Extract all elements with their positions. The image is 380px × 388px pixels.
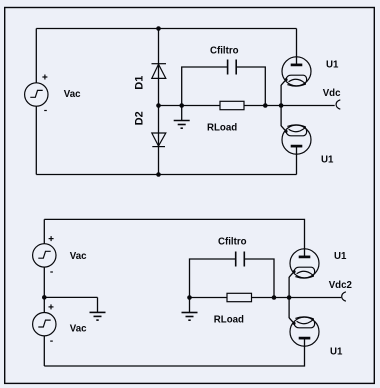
plus sign of bottom lower Vac <box>49 304 54 309</box>
wire: bottom circuit left rail <box>43 219 45 366</box>
ground (bottom circuit, sources midpoint) <box>90 297 106 320</box>
wire: bottom circuit bottom rail <box>44 338 304 366</box>
junction: top cap right <box>263 103 268 108</box>
wire: top circuit top rail <box>36 28 296 30</box>
wire: bottom sources midpoint to ground <box>44 296 97 298</box>
vacuum tube U1 (top circuit, lower) <box>281 125 311 155</box>
wire: top tubes cathode vertical <box>280 85 282 126</box>
svg-text:Vac: Vac <box>70 323 87 334</box>
wire: top output net horizontal <box>159 105 335 107</box>
minus sign of bottom lower Vac <box>50 340 53 342</box>
terminal Vdc2 <box>342 292 346 301</box>
wire: top filter cap right branch <box>237 67 265 106</box>
minus sign of bottom upper Vac <box>50 271 53 273</box>
svg-text:RLoad: RLoad <box>214 315 244 326</box>
svg-text:U1: U1 <box>330 347 343 358</box>
resistor RLoad (bottom circuit) <box>227 293 252 301</box>
junction: bottom sources midpoint <box>42 295 47 300</box>
junction: bottom cap right <box>272 295 277 300</box>
wire: top lower tube plate feed <box>296 146 298 175</box>
svg-text:Cfiltro: Cfiltro <box>218 236 247 247</box>
ground (bottom circuit, filter) <box>182 298 198 321</box>
svg-text:U1: U1 <box>334 251 347 262</box>
junction: bottom rail / diode branch <box>156 172 161 177</box>
terminal Vdc <box>336 100 340 109</box>
svg-text:Vac: Vac <box>70 251 87 262</box>
voltage source Vac (bottom circuit, upper) <box>33 244 56 267</box>
svg-text:D2: D2 <box>134 111 146 125</box>
wire: top circuit bottom rail <box>36 174 296 176</box>
plus sign of bottom upper Vac <box>49 236 54 241</box>
svg-text:Vac: Vac <box>64 89 81 100</box>
junction: top tubes cathode node <box>279 103 284 108</box>
wire: top upper tube plate feed <box>296 29 298 65</box>
junction: bottom filter ground / cap left <box>187 295 192 300</box>
plus sign of top Vac <box>42 75 47 80</box>
capacitor Cfiltro (bottom circuit) <box>236 252 245 267</box>
ground (top circuit) <box>174 106 190 129</box>
wire: diode branch vertical <box>158 29 160 175</box>
svg-text:Vdc2: Vdc2 <box>329 280 352 291</box>
voltage source Vac (bottom circuit, lower) <box>33 313 56 336</box>
resistor RLoad (top circuit) <box>220 101 244 109</box>
vacuum tube U1 (top circuit, upper) <box>281 56 311 86</box>
wire: bottom output net horizontal <box>190 297 342 299</box>
wire: top circuit left rail <box>35 29 37 175</box>
wire: bottom circuit top rail <box>44 219 304 256</box>
svg-text:U1: U1 <box>321 155 334 166</box>
diode D2 <box>152 133 166 147</box>
junction: top rail / diode branch <box>156 26 161 31</box>
junction: D1/D2 midpoint node <box>156 103 161 108</box>
wire: bottom filter cap branch left <box>190 259 236 298</box>
wire: bottom tubes cathode vertical <box>288 277 290 318</box>
vacuum tube U1 (bottom circuit, lower) <box>289 317 319 347</box>
svg-text:Vdc: Vdc <box>323 88 341 99</box>
vacuum tube U1 (bottom circuit, upper) <box>289 248 319 278</box>
svg-text:RLoad: RLoad <box>207 123 237 134</box>
svg-text:Cfiltro: Cfiltro <box>210 46 239 57</box>
capacitor Cfiltro (top circuit) <box>228 60 237 75</box>
svg-text:U1: U1 <box>326 59 339 70</box>
voltage source Vac (top circuit) <box>25 83 48 106</box>
wire: bottom filter cap branch right <box>245 259 274 298</box>
junction: bottom tubes cathode node <box>287 295 292 300</box>
minus sign of top Vac <box>44 110 47 112</box>
diode D1 <box>152 64 167 79</box>
junction: top ground / cap left <box>179 103 184 108</box>
svg-text:D1: D1 <box>134 76 146 90</box>
wire: top filter cap branch <box>182 67 227 106</box>
